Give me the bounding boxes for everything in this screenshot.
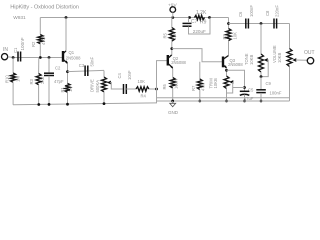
svg-text:100R: 100R bbox=[174, 79, 179, 89]
resistor R8 10K bbox=[222, 18, 238, 56]
node supply dot C7 left bbox=[188, 16, 191, 19]
potentiometer DRIVE 500KA bbox=[90, 71, 124, 104]
ground bus left bbox=[13, 103, 157, 105]
input signal wire bbox=[8, 56, 62, 59]
resistor R7 47K bbox=[191, 62, 206, 101]
wire C7 return loop to post-R9 node bbox=[189, 18, 211, 35]
svg-text:C7: C7 bbox=[191, 19, 198, 25]
capacitor C6 100nF bbox=[238, 5, 254, 29]
svg-text:C9: C9 bbox=[266, 81, 272, 86]
svg-text:10nF: 10nF bbox=[127, 70, 132, 80]
node dot R8 top / C6 bbox=[227, 22, 230, 25]
svg-text:C8: C8 bbox=[265, 10, 270, 16]
wire Q2 base riser bbox=[157, 61, 168, 89]
svg-text:R5: R5 bbox=[163, 32, 168, 38]
svg-text:10KB: 10KB bbox=[213, 78, 218, 88]
node dot tone bottom bbox=[260, 75, 263, 78]
svg-text:220nF: 220nF bbox=[275, 5, 280, 17]
transistor Q2 2N5088 bbox=[168, 55, 187, 69]
wire emitter node to drive pot bbox=[68, 70, 105, 71]
node emitter dot Q1 bbox=[66, 70, 69, 73]
svg-text:OUT: OUT bbox=[304, 50, 315, 56]
resistor R1 1K bbox=[60, 83, 73, 104]
svg-text:100nF: 100nF bbox=[270, 91, 282, 96]
wire C8 to volume pot bbox=[289, 24, 291, 49]
svg-text:10K: 10K bbox=[232, 32, 237, 40]
node supply dot R9 right bbox=[208, 16, 211, 19]
capacitor C2 47pF bbox=[44, 58, 64, 105]
capacitor C9 100nF bbox=[256, 77, 282, 101]
+9V terminal bbox=[168, 3, 177, 18]
node supply dot Q1 collector bbox=[65, 16, 68, 19]
ground symbol bbox=[168, 100, 179, 116]
transistor Q3 2N5088 bbox=[223, 56, 243, 69]
resistor R2 470K bbox=[31, 35, 46, 48]
svg-text:R3: R3 bbox=[29, 78, 34, 84]
svg-text:100nF: 100nF bbox=[249, 5, 254, 17]
potentiometer VOLUME 10KB bbox=[272, 45, 307, 101]
resistor R5 10K bbox=[163, 18, 178, 56]
svg-text:R6: R6 bbox=[162, 83, 167, 89]
svg-text:C3: C3 bbox=[79, 63, 85, 68]
node supply dot +9V entry bbox=[171, 16, 174, 19]
svg-text:HipKitty - Oxblood Distortion: HipKitty - Oxblood Distortion bbox=[10, 4, 79, 10]
svg-text:C2: C2 bbox=[55, 66, 61, 71]
svg-text:DRIVE: DRIVE bbox=[90, 79, 95, 92]
ground tie line upper bbox=[157, 97, 290, 99]
svg-text:W931: W931 bbox=[13, 15, 26, 21]
svg-text:2N5088: 2N5088 bbox=[228, 62, 243, 67]
node ground dot R3 bbox=[37, 103, 40, 106]
IN jack bbox=[2, 47, 9, 60]
node emitter dot Q3 bbox=[225, 69, 228, 72]
node dot tone tap bbox=[260, 22, 263, 25]
node dot C5 top bbox=[243, 86, 246, 89]
node ground dot R6 bbox=[171, 100, 174, 103]
node ground dot trim bbox=[225, 100, 228, 103]
svg-text:+9V: +9V bbox=[168, 3, 177, 9]
svg-text:47pF: 47pF bbox=[54, 79, 64, 84]
node ground dot drive pot bbox=[103, 102, 106, 105]
svg-text:R7: R7 bbox=[191, 85, 196, 91]
node ground dot R7 bbox=[198, 100, 201, 103]
svg-text:R2: R2 bbox=[31, 41, 36, 47]
resistor R4 10K bbox=[126, 79, 156, 99]
svg-text:2N5088: 2N5088 bbox=[66, 56, 81, 61]
node dot R4 to Q2 base bbox=[155, 88, 158, 91]
+9V supply rail wire bbox=[40, 17, 228, 19]
node ground dot C2 bbox=[48, 103, 51, 106]
svg-text:C4: C4 bbox=[117, 72, 122, 78]
svg-text:10KB: 10KB bbox=[249, 55, 254, 65]
wire rail corner left down to R2 bbox=[39, 18, 41, 35]
capacitor C3 50nF bbox=[79, 57, 95, 76]
potentiometer TRIM 10KB bbox=[209, 70, 234, 101]
svg-text:2N5088: 2N5088 bbox=[171, 60, 186, 65]
svg-text:C6: C6 bbox=[238, 11, 243, 17]
svg-text:10KB: 10KB bbox=[277, 53, 282, 63]
node ground dot R1 bbox=[66, 103, 69, 106]
resistor R9 1.2K bbox=[195, 10, 207, 26]
wire C5 node to trim wiper bbox=[233, 87, 245, 89]
node input dot C2 bbox=[48, 56, 51, 59]
svg-text:10K: 10K bbox=[138, 79, 146, 84]
svg-text:500KA: 500KA bbox=[95, 80, 100, 93]
svg-text:IN: IN bbox=[3, 47, 8, 53]
node ground dot C9 bbox=[260, 100, 263, 103]
wire Q1 emitter down bbox=[67, 63, 69, 83]
wire base node down to ground bbox=[156, 89, 158, 103]
capacitor C8 220nF bbox=[265, 5, 280, 29]
wire R2 bottom to input line bbox=[39, 44, 41, 58]
capacitor C4 10nF bbox=[117, 70, 132, 94]
ground bus right bbox=[157, 100, 290, 102]
potentiometer TONE 10KB bbox=[244, 24, 268, 77]
wire Q2 collector to Q3 base bbox=[172, 49, 222, 62]
transistor Q1 2N5088 bbox=[63, 18, 81, 64]
capacitor C1 100nF bbox=[13, 37, 25, 61]
svg-text:100nF: 100nF bbox=[20, 37, 25, 50]
node ground dot C5 bbox=[243, 100, 246, 103]
capacitor C5 47uF bbox=[240, 88, 254, 102]
resistor R3 2K2 bbox=[29, 58, 45, 105]
OUT jack bbox=[304, 50, 315, 64]
wire C6 line bbox=[229, 23, 290, 25]
node dot Q2 collector bbox=[170, 47, 173, 50]
svg-text:R1: R1 bbox=[60, 86, 65, 92]
svg-text:2K2: 2K2 bbox=[40, 76, 45, 84]
wire Q3 emitter to C5 bbox=[227, 70, 245, 91]
svg-text:Q1: Q1 bbox=[69, 50, 75, 55]
capacitor C7 220uF bbox=[183, 18, 207, 35]
svg-text:220uF: 220uF bbox=[193, 29, 206, 34]
resistor R10 1M bbox=[5, 58, 21, 105]
resistor R6 100R bbox=[162, 69, 178, 101]
svg-text:50nF: 50nF bbox=[90, 57, 95, 67]
node input dot R2/R3 bbox=[39, 56, 42, 59]
node input dot R10 bbox=[12, 56, 15, 59]
svg-text:GND: GND bbox=[168, 110, 179, 115]
svg-text:R4: R4 bbox=[141, 94, 147, 99]
